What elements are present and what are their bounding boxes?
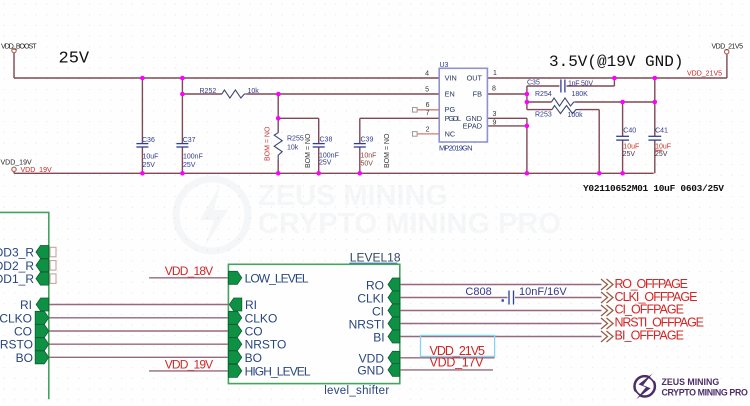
svg-text:CRYPTO MINING PRO: CRYPTO MINING PRO (662, 388, 748, 398)
svg-text:RO_OFFPAGE: RO_OFFPAGE (615, 277, 689, 291)
svg-text:10k: 10k (248, 88, 260, 95)
svg-text:VDD_19V: VDD_19V (165, 357, 214, 371)
svg-text:VDD_BOOST: VDD_BOOST (1, 43, 37, 50)
svg-text:R254: R254 (535, 91, 552, 98)
svg-text:3: 3 (493, 111, 497, 118)
svg-text:C40: C40 (623, 128, 636, 135)
svg-text:MP2019GN: MP2019GN (439, 144, 473, 153)
svg-text:C39: C39 (361, 137, 374, 144)
svg-text:BI_OFFPAGE: BI_OFFPAGE (615, 328, 685, 342)
svg-text:HIGH_LEVEL: HIGH_LEVEL (245, 364, 311, 378)
svg-text:ZEUS MINING: ZEUS MINING (662, 377, 720, 387)
svg-text:CO: CO (245, 325, 263, 339)
svg-text:25V: 25V (183, 162, 196, 169)
svg-text:RO: RO (366, 278, 384, 292)
svg-text:1: 1 (493, 70, 497, 77)
svg-text:NRSTO: NRSTO (245, 338, 287, 352)
svg-text:U3: U3 (440, 62, 449, 69)
svg-text:NRSTO: NRSTO (0, 338, 33, 352)
svg-text:100k: 100k (568, 112, 584, 119)
svg-text:10uF: 10uF (655, 144, 671, 151)
svg-text:25V: 25V (655, 151, 668, 158)
svg-text:10uF: 10uF (623, 144, 639, 151)
svg-text:180K: 180K (572, 91, 589, 98)
svg-text:5: 5 (425, 87, 429, 94)
svg-text:VDD_19V: VDD_19V (1, 160, 32, 167)
svg-text:VDD_21V5: VDD_21V5 (712, 44, 744, 51)
svg-text:LOW_LEVEL: LOW_LEVEL (245, 271, 309, 285)
svg-text:RI: RI (20, 298, 32, 312)
svg-text:CO: CO (14, 325, 32, 339)
svg-text:8: 8 (492, 85, 496, 92)
svg-text:C41: C41 (655, 128, 668, 135)
svg-text:CI_OFFPAGE: CI_OFFPAGE (615, 303, 685, 317)
svg-text:PGDL: PGDL (445, 114, 462, 123)
svg-text:BOM = NO: BOM = NO (305, 133, 312, 168)
svg-text:25V: 25V (59, 50, 90, 69)
svg-text:BO: BO (245, 351, 262, 365)
svg-text:CLKO: CLKO (0, 311, 32, 325)
svg-text:VDD3_R: VDD3_R (0, 246, 34, 260)
svg-text:RI: RI (245, 298, 257, 312)
svg-text:BOM = NO: BOM = NO (384, 133, 391, 168)
svg-text:VIN: VIN (445, 74, 457, 83)
svg-text:CLKI: CLKI (357, 291, 384, 305)
svg-text:50V: 50V (361, 161, 374, 168)
svg-text:25V: 25V (319, 160, 332, 167)
svg-text:PG: PG (445, 105, 456, 114)
svg-text:NRSTI: NRSTI (349, 317, 385, 331)
svg-text:100nF: 100nF (319, 153, 339, 160)
svg-text:BI: BI (373, 330, 384, 344)
svg-text:Y02110652M01 10uF 0603/25V: Y02110652M01 10uF 0603/25V (583, 183, 724, 194)
svg-text:BOM = NO: BOM = NO (264, 126, 271, 161)
svg-text:VDD2_R: VDD2_R (0, 259, 34, 273)
svg-text:4: 4 (425, 71, 429, 78)
svg-text:LEVEL18: LEVEL18 (350, 251, 401, 265)
svg-text:VDD_17V: VDD_17V (430, 355, 485, 369)
svg-text:CRYPTO MINING PRO: CRYPTO MINING PRO (258, 208, 561, 240)
svg-text:CI: CI (372, 304, 384, 318)
svg-text:OUT: OUT (467, 74, 483, 83)
svg-text:25V: 25V (623, 151, 636, 158)
svg-text:R253: R253 (535, 112, 552, 119)
svg-text:C37: C37 (183, 137, 196, 144)
svg-text:25V: 25V (143, 162, 156, 169)
svg-text:C36: C36 (142, 137, 155, 144)
svg-text:GND: GND (357, 364, 384, 378)
svg-text:BO: BO (16, 351, 33, 365)
svg-text:6: 6 (426, 102, 430, 109)
svg-text:VDD1_R: VDD1_R (0, 272, 34, 286)
svg-text:VDD_21V5: VDD_21V5 (687, 71, 722, 78)
svg-text:7: 7 (426, 110, 430, 117)
svg-text:EPAD: EPAD (463, 122, 482, 131)
svg-text:10uF: 10uF (143, 154, 159, 161)
svg-text:NC: NC (445, 129, 456, 138)
svg-text:100nF: 100nF (183, 154, 203, 161)
svg-text:EN: EN (445, 90, 455, 99)
svg-text:C38: C38 (320, 137, 333, 144)
svg-text:level_shifter: level_shifter (324, 385, 389, 397)
svg-text:CLKO: CLKO (245, 311, 278, 325)
svg-text:2: 2 (426, 127, 430, 134)
svg-text:9: 9 (493, 120, 497, 127)
svg-text:C35: C35 (527, 80, 540, 87)
svg-text:C808: C808 (465, 286, 491, 298)
svg-text:10k: 10k (287, 145, 299, 152)
svg-text:FB: FB (473, 90, 482, 99)
svg-text:3.5V(@19V GND): 3.5V(@19V GND) (549, 53, 683, 71)
svg-text:10nF: 10nF (361, 153, 377, 160)
svg-text:1nF 50V: 1nF 50V (568, 80, 593, 87)
svg-text:VDD_18V: VDD_18V (165, 264, 214, 278)
svg-text:10nF/16V: 10nF/16V (519, 286, 567, 298)
svg-text:R255: R255 (287, 136, 304, 143)
svg-text:VDD_19V: VDD_19V (21, 167, 52, 174)
svg-text:R252: R252 (200, 88, 217, 95)
